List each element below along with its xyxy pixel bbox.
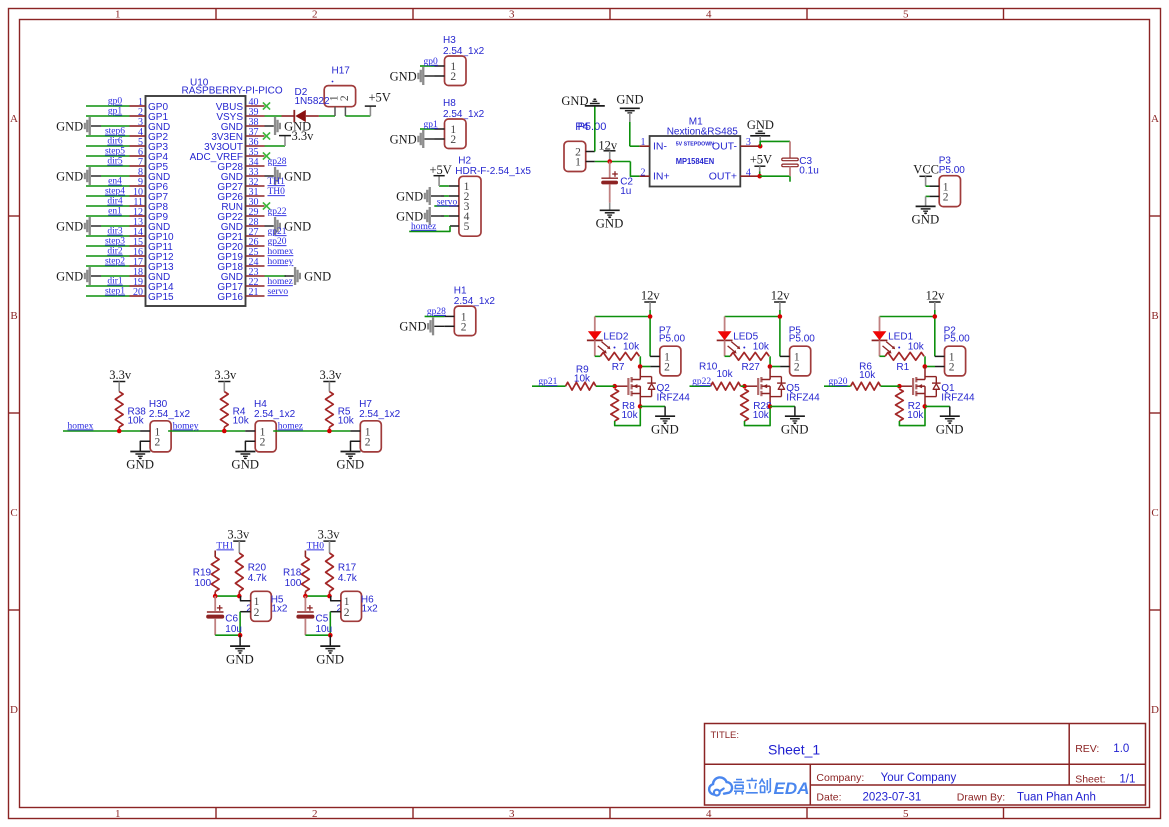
resistor R17 4.7k [326,553,334,592]
U10 pin 17 GP13 [130,265,146,267]
P7 pin 1 wire [650,355,660,357]
svg-text:GND: GND [781,422,809,436]
svg-text:2: 2 [461,321,467,333]
junction source (Q1) [923,404,928,409]
wire net homex [63,430,140,432]
junction 12v (LED2) [648,314,653,319]
wire 3V3OUT to 3.3v [265,145,286,147]
U10 pin 16 GP12 [130,255,146,257]
svg-text:12v: 12v [771,289,791,303]
wire net en1 [86,215,130,217]
svg-text:+5V: +5V [750,153,772,167]
svg-text:2: 2 [943,192,949,204]
svg-text:R10: R10 [699,361,718,372]
transistor Q5 IRFZ44 [769,367,771,380]
svg-text:gp20: gp20 [268,237,287,247]
svg-text:dir5: dir5 [107,157,123,167]
svg-text:homez: homez [411,222,436,232]
M1 pin 2 IN+ [640,175,650,177]
svg-text:gp1: gp1 [424,120,439,130]
capacitor C6 10u [214,596,216,611]
H17 pin 2 lead [344,107,346,116]
resistor R2 10k (gate pulldown) [896,389,904,421]
wire pin 23 to GND [265,275,287,277]
wire divider node [215,595,239,597]
svg-text:servo: servo [437,197,458,207]
wire OUT+ to C3 [760,175,790,177]
svg-text:EDA: EDA [774,779,810,798]
wire to drain node [639,356,641,366]
H2 pin 4 ground flag [441,215,444,217]
LED LED1 [879,317,881,332]
wire source to GND [770,405,795,407]
svg-text:R27: R27 [742,362,761,373]
U10 pin 1 GP0 [130,105,146,107]
svg-text:GND: GND [231,458,259,472]
wire divider node [305,595,329,597]
U10 pin 32 GP27 [246,185,265,187]
ground (Q1 source) [940,415,960,417]
diode D2 1N5822 [282,115,295,117]
junction 12v [607,159,612,164]
U10 pin 9 GP6 [130,185,146,187]
wire net dir1 [86,285,130,287]
junction GND node (H5) [238,633,243,638]
svg-text:10k: 10k [338,415,355,426]
svg-text:C: C [1151,507,1158,519]
svg-text:GND: GND [284,219,311,233]
svg-text:2: 2 [260,437,266,449]
junction R20 bottom [237,594,242,599]
svg-text:H8: H8 [443,98,456,109]
P3 pin 1 wire [926,185,930,187]
wire cap to GND [305,634,330,636]
svg-text:H6: H6 [361,595,374,606]
U10 pin 2 GP1 [130,115,146,117]
svg-text:4: 4 [706,9,712,21]
H7 pin 2 wire to GND [351,441,361,451]
svg-text:10k: 10k [753,341,770,352]
svg-text:Company:: Company: [816,772,864,784]
svg-text:4: 4 [706,808,712,820]
node gp22 [690,385,711,387]
svg-text:5: 5 [464,221,470,233]
wire 12v rail [880,316,935,318]
svg-text:GND: GND [747,118,774,132]
svg-text:10k: 10k [574,374,591,385]
wire IN- [630,145,640,147]
ground flag pin 13 [91,225,101,227]
svg-text:2.54_1x2: 2.54_1x2 [149,409,191,420]
svg-text:dir6: dir6 [107,137,123,147]
svg-text:VCC: VCC [913,162,939,176]
U10 pin 14 GP10 [130,235,146,237]
svg-text:GND: GND [651,422,679,436]
svg-text:dir3: dir3 [107,227,123,237]
ground (Q5 source) [785,415,805,417]
U10 pin 31 GP26 [246,195,265,197]
svg-text:RASPBERRY-PI-PICO: RASPBERRY-PI-PICO [182,86,283,97]
svg-text:2023-07-31: 2023-07-31 [863,791,922,803]
svg-text:2: 2 [312,9,318,21]
wire pin 18 to GND [101,275,130,277]
junction source (Q2) [638,404,643,409]
junction OUT- [758,144,763,149]
ground (Q2 source) [655,415,675,417]
U10 pin 18 GND [130,275,146,277]
ground (H5) [239,635,241,646]
U10 pin 27 GP21 [246,235,265,237]
svg-text:2: 2 [312,808,318,820]
svg-text:2: 2 [664,362,670,374]
svg-text:3.3v: 3.3v [319,368,342,382]
svg-text:TH1: TH1 [216,541,234,551]
U10 pin 15 GP11 [130,245,146,247]
svg-text:MP1584EN: MP1584EN [676,156,715,166]
capacitor C3 0.1u [789,141,791,158]
H7 pin 1 lead [350,430,360,432]
svg-text:P5.00: P5.00 [789,334,816,345]
junction gate (Q5) [742,384,747,389]
title block [705,724,1146,806]
svg-text:2: 2 [641,167,646,178]
svg-text:3.3v: 3.3v [227,527,250,541]
resistor R19 100 [214,551,216,558]
U10 pin 6 GP4 [130,155,146,157]
svg-text:en1: en1 [108,207,122,217]
U10 pin 10 GP7 [130,195,146,197]
svg-text:Sheet:: Sheet: [1075,773,1105,785]
svg-text:gp20: gp20 [829,377,848,387]
svg-text:GND: GND [399,320,426,334]
H1 pin 1 wire net gp28 [444,315,454,317]
resistor R38 10k [115,392,123,428]
svg-text:12v: 12v [598,139,618,153]
power flag 12v (LED1 circuit) [929,301,941,303]
svg-text:OUT+: OUT+ [709,171,737,183]
svg-text:H5: H5 [271,595,284,606]
svg-text:5: 5 [903,9,909,21]
svg-text:10k: 10k [623,341,640,352]
svg-text:GND: GND [56,169,83,183]
svg-text:2: 2 [450,134,456,146]
U10 pin 23 GND [246,275,265,277]
chip U10 RASPBERRY-PI-PICO body [146,96,246,306]
junction drain (Q1) [923,364,928,369]
no-connect X pin 35 [263,152,270,159]
svg-text:homey: homey [173,421,199,431]
junction homex [117,429,122,434]
U10 pin 38 GND [246,125,265,127]
U10 pin 37 3V3EN [246,135,265,137]
H2 pin 2 ground flag [441,195,444,197]
junction R19 bottom [213,594,218,599]
svg-text:P5.00: P5.00 [944,334,971,345]
P4 pin 2 lead [586,151,595,153]
svg-text:1N5822: 1N5822 [295,96,330,107]
svg-text:2: 2 [949,362,955,374]
svg-text:dir1: dir1 [107,277,123,287]
wire net step5 [86,155,130,157]
svg-text:GND: GND [936,422,964,436]
svg-text:21: 21 [249,287,259,298]
resistor R8 10k (gate pulldown) [611,389,619,421]
svg-text:2: 2 [450,71,456,83]
svg-text:P5.00: P5.00 [659,334,686,345]
U10 pin 24 GP18 [246,265,265,267]
svg-text:H1: H1 [454,285,467,296]
U10 pin 35 ADC_VREF [246,155,265,157]
svg-text:GND: GND [284,169,311,183]
svg-text:GND: GND [561,94,588,108]
U10 pin 33 GND [246,175,265,177]
U10 pin 3 GND [130,125,146,127]
ground flag pin 38 [265,125,274,127]
svg-text:GND: GND [396,189,423,203]
U10 pin 19 GP14 [130,285,146,287]
wire net step4 [86,195,130,197]
svg-text:C: C [10,507,17,519]
svg-text:TH0: TH0 [268,187,286,197]
no-connect X pin 37 [263,132,270,139]
svg-text:TITLE:: TITLE: [711,730,740,741]
svg-text:10k: 10k [753,410,770,421]
svg-text:1: 1 [115,808,121,820]
U10 pin 12 GP9 [130,215,146,217]
wire 12v rail [595,316,650,318]
svg-text:GND: GND [56,119,83,133]
svg-text:100: 100 [194,578,211,589]
svg-text:R18: R18 [283,568,302,579]
U10 pin 40 VBUS [246,105,265,107]
svg-text:20: 20 [133,287,143,298]
svg-text:3.3v: 3.3v [318,527,341,541]
svg-text:TH1: TH1 [268,177,286,187]
svg-text:2.54_1x2: 2.54_1x2 [359,409,401,420]
svg-text:gp21: gp21 [268,227,287,237]
svg-text:1: 1 [115,9,121,21]
svg-text:5: 5 [903,808,909,820]
resistor R18 100 [304,551,306,558]
svg-text:1.0: 1.0 [1113,743,1129,755]
ground flag pin 18 [91,275,101,277]
svg-text:GND: GND [390,132,417,146]
svg-text:12v: 12v [641,289,661,303]
svg-text:step6: step6 [105,127,125,137]
svg-text:2: 2 [254,607,260,619]
svg-text:P5.00: P5.00 [578,121,607,133]
U10 pin 34 GP28 [246,165,265,167]
svg-text:GND: GND [304,269,331,283]
M1 pin 3 OUT- [740,145,758,147]
svg-text:3: 3 [509,808,515,820]
svg-text:2: 2 [339,95,351,101]
P5 pin 2 wire [770,366,780,368]
svg-text:1: 1 [575,157,581,169]
H1 pin 2 ground flag [444,325,454,327]
U10 pin 25 GP19 [246,255,265,257]
U10 pin 36 3V3OUT [246,145,265,147]
resistor R1 10k [880,355,886,357]
svg-text:R19: R19 [193,568,212,579]
node gp21 [532,385,566,387]
svg-text:homez: homez [278,421,303,431]
wire net en4 [86,185,130,187]
wire net step1 [86,295,130,297]
svg-text:GND: GND [56,269,83,283]
svg-text:Date:: Date: [816,792,841,804]
H5 pin 2 wire [240,611,251,613]
svg-text:gp1: gp1 [108,107,123,117]
U10 pin 5 GP3 [130,145,146,147]
node gp20 [824,385,851,387]
svg-text:+5V: +5V [369,91,391,105]
svg-text:Tuan Phan Anh: Tuan Phan Anh [1017,791,1096,803]
wire net step2 [86,265,130,267]
svg-text:1/1: 1/1 [1119,773,1135,785]
wire pulldown to source [615,406,641,425]
resistor R9 10k (gate series) [566,382,596,390]
H6 pin 1 wire [331,596,341,601]
H5 pin 1 wire [241,596,251,601]
svg-text:C5: C5 [316,613,329,624]
svg-text:dir4: dir4 [107,197,123,207]
svg-text:IRFZ44: IRFZ44 [786,392,820,403]
svg-text:gp28: gp28 [268,157,287,167]
svg-text:GND: GND [596,217,624,231]
svg-text:10k: 10k [717,369,734,380]
wire D2 to H17 pin 1 [319,115,335,117]
svg-text:gp22: gp22 [268,207,287,217]
svg-text:10k: 10k [622,410,639,421]
resistor R6 10k (gate series) [851,382,881,390]
wire source to GND [925,405,950,407]
svg-text:4.7k: 4.7k [248,573,268,584]
wire net gp0 [86,105,130,107]
H2 pin 1 wire to +5V [449,185,459,187]
wire net step3 [86,245,130,247]
junction homey [222,429,227,434]
wire pin 8 to GND [101,175,130,177]
svg-text:step1: step1 [105,287,125,297]
P3 pin 2 wire to GND [929,195,939,197]
svg-text:H3: H3 [443,35,456,46]
H3 pin 1 wire net gp0 [435,65,445,67]
svg-text:1: 1 [641,137,646,148]
svg-text:step4: step4 [105,187,125,197]
resistor R27 10k [725,355,731,357]
wire source to GND [640,405,665,407]
resistor R20 4.7k [235,553,243,592]
svg-text:homex: homex [268,247,294,257]
svg-text:H2: H2 [458,155,471,166]
svg-text:GND: GND [616,93,643,107]
svg-text:GP15: GP15 [148,292,174,303]
svg-text:Your Company: Your Company [881,772,957,784]
svg-text:3.3v: 3.3v [109,368,132,382]
U10 pin 39 VSYS [246,115,265,117]
resistor R7 10k [595,355,601,357]
H17 pin 1 lead [334,107,336,116]
junction gate (Q1) [897,384,902,389]
no-connect X pin 30 [263,202,270,209]
LED LED5 [724,317,726,332]
svg-text:GP16: GP16 [217,292,243,303]
svg-text:servo: servo [268,287,289,297]
junction GND node (H6) [328,633,333,638]
U10 pin 20 GP15 [130,295,146,297]
wire net dir5 [86,165,130,167]
svg-text:gp28: gp28 [427,307,446,317]
U10 pin 21 GP16 [246,295,265,297]
svg-text:A: A [10,113,18,125]
ground flag pin 3 [91,125,101,127]
wire net homey [168,430,245,432]
svg-text:H17: H17 [332,66,351,77]
svg-text:B: B [10,310,17,322]
svg-text:2.54_1x2: 2.54_1x2 [254,409,296,420]
ground (C2) [609,203,611,211]
svg-text:step5: step5 [105,147,125,157]
svg-text:GND: GND [316,652,344,666]
capacitor C5 10u [304,596,306,611]
svg-text:gp21: gp21 [538,377,557,387]
U10 pin 4 GP2 [130,135,146,137]
svg-text:homex: homex [68,421,94,431]
junction homez [327,429,332,434]
svg-text:10k: 10k [908,341,925,352]
power flag 12v (LED5 circuit) [774,301,786,303]
wire 12v rail [725,316,780,318]
svg-text:2: 2 [155,437,161,449]
svg-text:1u: 1u [620,186,631,197]
svg-text:gp22: gp22 [692,377,711,387]
U10 pin 8 GND [130,175,146,177]
P5 pin 1 wire [780,355,790,357]
U10 pin 13 GND [130,225,146,227]
wire to drain node [924,356,926,366]
wire VSYS to D2 [265,115,282,117]
H3 pin 2 ground flag [435,75,445,77]
junction OUT+ [757,174,762,179]
svg-text:GND: GND [126,458,154,472]
junction 12v (LED5) [778,314,783,319]
svg-text:100: 100 [285,578,302,589]
svg-text:GND: GND [56,219,83,233]
H8 pin 2 ground flag [435,138,445,140]
svg-text:step3: step3 [105,237,125,247]
P2 pin 1 wire [935,355,945,357]
svg-text:homey: homey [268,257,294,267]
wire 12v node [595,161,631,163]
power flag +5V (H2) [434,175,445,177]
wire net dir3 [86,235,130,237]
svg-text:3: 3 [509,9,515,21]
wire net dir4 [86,205,130,207]
ground (top-left, earth up) [594,106,596,152]
no-connect X pin 40 [263,102,270,109]
junction gate (Q2) [612,384,617,389]
svg-text:3.3v: 3.3v [292,129,315,143]
svg-text:3.3v: 3.3v [214,368,237,382]
wire to drain node [769,356,771,366]
H2 pin 5 wire net homez [450,225,459,227]
wire net dir6 [86,145,130,147]
junction drain (Q5) [768,364,773,369]
svg-text:gp0: gp0 [424,57,439,67]
U10 pin 30 RUN [246,205,265,207]
svg-text:GND: GND [912,213,940,227]
